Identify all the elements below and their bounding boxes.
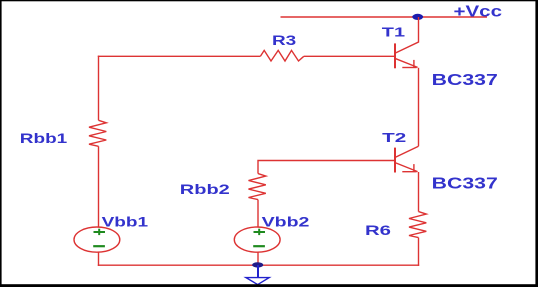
svg-text:Vbb1: Vbb1 [102, 214, 149, 230]
node Vcc junction dot [412, 14, 423, 20]
border bottom [0, 284, 538, 287]
node ground junction dot [252, 262, 263, 267]
wire bottom rail [98, 264, 419, 266]
border top [0, 0, 538, 1]
border left [0, 0, 2, 287]
wire Vbb1 to bottom rail [98, 252, 100, 266]
transistor T2 base bar [394, 148, 396, 173]
svg-text:T2: T2 [382, 130, 406, 145]
svg-text:Rbb1: Rbb1 [20, 130, 68, 146]
resistor R3 [260, 50, 303, 61]
wire base lead right segment [304, 55, 395, 57]
source Vbb1 [74, 227, 120, 252]
source Vbb2 [234, 227, 280, 252]
wire Vbb2 to bottom rail [257, 252, 259, 265]
wire Rbb1 to Vbb1 [98, 146, 100, 227]
transistor T1 base bar [394, 43, 396, 68]
svg-text:BC337: BC337 [432, 176, 498, 193]
wire R6 to bottom rail [418, 238, 420, 266]
svg-text:+Vcc: +Vcc [454, 4, 503, 21]
resistor Rbb1 [89, 120, 106, 146]
svg-text:T1: T1 [382, 24, 405, 39]
wire T2 emitter to R6 [418, 172, 420, 212]
wire T1 collector drop [396, 17, 419, 53]
wire top rail to +Vcc [281, 16, 488, 18]
svg-text:R3: R3 [272, 33, 297, 48]
ground [246, 265, 269, 285]
resistor Rbb2 [249, 174, 266, 200]
svg-text:R6: R6 [365, 222, 391, 238]
wire T2 collector diagonal [396, 146, 419, 157]
wire T1 emitter to T2 collector trunk [418, 68, 420, 146]
wire Rbb2 to Vbb2 [257, 200, 259, 228]
transistor T1 emitter with arrow [396, 59, 418, 68]
svg-text:Rbb2: Rbb2 [180, 181, 230, 197]
svg-text:BC337: BC337 [432, 72, 498, 89]
wire base lead left segment [98, 55, 261, 57]
svg-text:Vbb2: Vbb2 [262, 214, 310, 230]
transistor T2 emitter with arrow [396, 163, 418, 172]
wire T2 base lead [258, 161, 395, 174]
resistor R6 [409, 212, 426, 238]
border right [535, 0, 538, 287]
wire left branch vertical [98, 56, 100, 121]
